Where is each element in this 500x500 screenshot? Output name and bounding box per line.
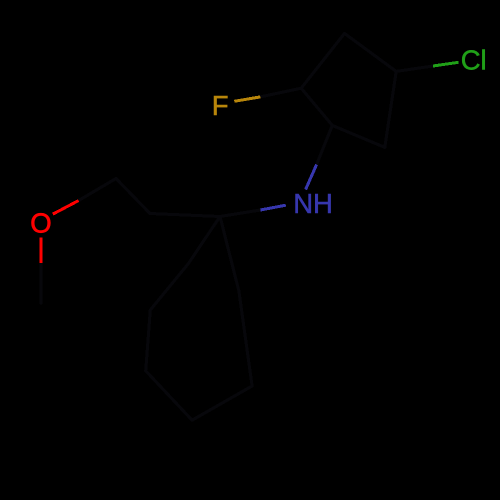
bond F-CF carbon half (260, 88, 301, 97)
bond N-Calpha carbon half (220, 210, 260, 217)
bond O-CH3 carbon half (40, 263, 43, 303)
bond L2-Bt bottom ring (146, 371, 192, 420)
bond N-Cipso carbon half (317, 125, 333, 164)
bond O-A carbon half (79, 179, 117, 201)
svg-text:Cl: Cl (461, 45, 487, 76)
bond L1-L2 bottom ring (146, 310, 151, 371)
bond CCl-R top ring (385, 71, 396, 147)
svg-text:NH: NH (293, 188, 333, 219)
bond N-Calpha nitrogen half (blue) (260, 205, 285, 210)
bond N-Cipso nitrogen half (blue) (306, 165, 317, 190)
bond O-A oxygen half (red) (53, 201, 79, 215)
bond A-B (116, 179, 150, 214)
bond Calpha-D bottom ring (188, 217, 220, 264)
wire carbon skeleton bonds (near-black) (41, 33, 433, 420)
bond B-Calpha (150, 214, 220, 217)
bond Cl-CCl carbon half (396, 66, 433, 71)
bond Br-E bottom ring (239, 291, 252, 386)
bond F-CF fluorine half (gold) (234, 97, 260, 101)
bond Calpha-E bottom ring (220, 217, 239, 292)
bond R-Cipso top ring (332, 125, 385, 147)
bond T-CCl top ring (345, 33, 397, 71)
bond O-CH3 oxygen half (red) (39, 238, 42, 263)
bond Cipso-CF top ring closing (301, 88, 332, 125)
svg-text:F: F (212, 90, 229, 121)
bond Bt-Br bottom ring (192, 386, 252, 420)
svg-text:O: O (30, 207, 51, 238)
bond CF-T top ring (301, 33, 344, 88)
bond Cl-CCl chlorine half (green) (433, 62, 459, 66)
bond D-L1 bottom ring (150, 264, 188, 310)
